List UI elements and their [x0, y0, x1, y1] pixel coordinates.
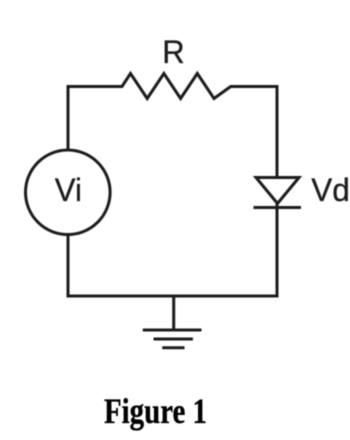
svg-text:R: R	[162, 34, 184, 70]
svg-text:Vi: Vi	[55, 172, 82, 208]
svg-text:Vd: Vd	[311, 172, 350, 208]
svg-text:Figure 1: Figure 1	[104, 391, 207, 431]
